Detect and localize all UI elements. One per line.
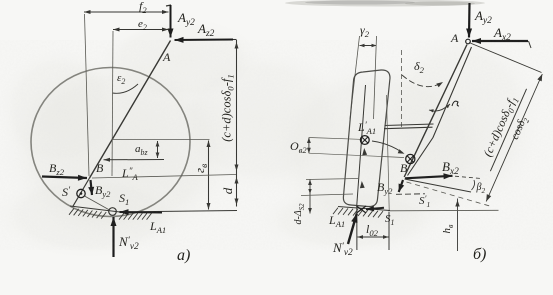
Bx2 direction dashes and angle beta2 <box>455 176 481 178</box>
force Ay2 (right) <box>468 3 471 38</box>
moment L''A arrow at B <box>104 159 165 161</box>
point S1 (contact, small circle) <box>109 208 117 216</box>
dim e2 <box>113 29 169 31</box>
force Bx2 <box>405 176 453 179</box>
wheel centre plane line with up arrowheads <box>357 85 366 205</box>
ground hatching left of S1 <box>69 208 74 215</box>
force N'v2 (right) <box>348 214 357 245</box>
dim f2 top <box>84 11 169 13</box>
force Ax2 (right) <box>529 41 532 48</box>
small angle mark on kingpin <box>429 104 450 111</box>
angle delta2 arc and label <box>402 75 443 87</box>
lever line from B <box>405 179 472 192</box>
vertical dash-dot reference for delta2 <box>401 50 403 127</box>
ground hatching right of S1 <box>119 213 124 220</box>
force Az2 (left) <box>233 39 237 41</box>
kingpin point symbol circle-cross <box>406 154 415 163</box>
dim r_v (wheel radius) vertical <box>208 141 210 210</box>
force By2 <box>91 180 93 195</box>
force L_A1 (left, friction at S1) <box>120 211 163 214</box>
dim O_v2 <box>308 138 310 154</box>
force L_A1 (right) <box>366 208 384 210</box>
force N'v2 (left) <box>112 217 114 257</box>
hub symbol circle-cross with label L-prime-A1 <box>360 136 369 145</box>
force Bz2 <box>42 177 87 179</box>
kingpin axis line A-B with extension to ground <box>90 41 171 179</box>
ground line (left) <box>70 206 237 212</box>
ground line under tyre with hatching <box>338 207 390 211</box>
line S-prime to S1 <box>85 196 110 210</box>
B-level horizontal reference line <box>92 175 236 179</box>
dashed line B to dimension foot <box>407 182 492 207</box>
wheel centre horizontal line <box>112 139 210 141</box>
e2 extension line down to wheel centre <box>112 31 113 176</box>
gamma2 reference lines <box>350 36 360 119</box>
ground reference line (right, long) <box>388 209 499 212</box>
contact point X mark <box>357 206 367 213</box>
axle double line <box>385 124 434 126</box>
dim gamma2 <box>360 45 377 47</box>
dim (c+d)cos d0 - f1 (vertical, A to B level) <box>236 40 238 207</box>
dim l_02 <box>358 236 389 238</box>
force Ay2 (left) <box>166 5 171 6</box>
dim d (vertical, B level to ground) <box>235 177 239 184</box>
S-prime-1 dashes and label <box>396 193 425 196</box>
dim d - delta_S2 <box>309 180 311 214</box>
dim a_bz <box>157 141 159 158</box>
kingpin strut double line A-B <box>404 45 467 178</box>
slanted dim (c+d)cos d0-f1 / cos d2 <box>469 43 542 73</box>
point A (right, small circle) <box>466 39 471 44</box>
scan streak top edge <box>285 0 485 7</box>
f2 extension line down to B <box>85 14 90 176</box>
leader arrow to kingpin point <box>372 141 403 153</box>
angle eps2 arc and label <box>113 84 139 93</box>
dim h_v <box>457 199 459 252</box>
vertical reference line through S1 (right) <box>387 95 390 211</box>
force By2 (right) <box>399 180 403 192</box>
tyre outline (rounded, cambered) <box>343 70 390 207</box>
point S-prime symbol (circle with dot) <box>77 189 85 197</box>
wheel circle (left view) <box>31 68 190 217</box>
